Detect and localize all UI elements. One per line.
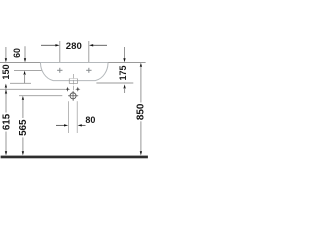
svg-text:850: 850 <box>136 103 147 120</box>
svg-text:60: 60 <box>12 48 22 58</box>
svg-text:565: 565 <box>18 119 29 136</box>
svg-text:615: 615 <box>2 113 13 130</box>
svg-text:150: 150 <box>1 64 11 79</box>
svg-text:280: 280 <box>66 41 82 52</box>
svg-text:175: 175 <box>118 65 128 80</box>
svg-text:80: 80 <box>85 115 95 125</box>
